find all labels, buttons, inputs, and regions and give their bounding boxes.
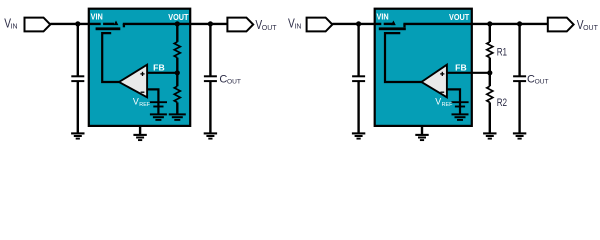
- wire U2 GND pin: [421, 126, 423, 135]
- wire FB node to lower divider resistor: [176, 73, 178, 86]
- svg-text:VOUT: VOUT: [168, 12, 189, 22]
- op-amp U2 error amplifier minus input marker: [440, 91, 444, 93]
- wire op-amp inverting input to VREF U1: [147, 89, 158, 114]
- transistor Q2 (PMOS pass) gate lead wire: [385, 33, 423, 82]
- capacitor CIN (input): [71, 76, 84, 81]
- IC U1 (fixed-output LDO regulator) body: [89, 9, 190, 126]
- transistor Q2 (PMOS pass) channel segment: [384, 23, 395, 25]
- ground (COUT, circuit 2): [513, 133, 526, 138]
- resistor R bottom (internal divider, U1): [174, 86, 180, 102]
- IC U2 (adjustable-output LDO regulator) body: [375, 9, 472, 126]
- transistor Q1 (PMOS pass) drain stub: [123, 24, 125, 27]
- wire COUT bottom (circuit 2): [518, 81, 520, 132]
- svg-text:VIN: VIN: [91, 12, 103, 22]
- wire CIN top (circuit 2): [357, 24, 359, 76]
- voltage reference VREF U2 long plate: [451, 101, 468, 103]
- svg-text:OUT: OUT: [535, 79, 549, 86]
- wire pass transistor drain to VOUT port (circuit 2): [403, 23, 547, 25]
- voltage reference VREF U2 short plate: [455, 106, 465, 108]
- wire VIN port to pass transistor source (circuit 2): [332, 23, 381, 25]
- capacitor CIN (input, circuit 2): [352, 76, 365, 81]
- wire op-amp inverting input to VREF U2: [447, 89, 460, 114]
- wire COUT bottom: [209, 81, 211, 132]
- junction node VOUT / R1 (circuit 2): [487, 21, 492, 26]
- junction node VIN / CIN (circuit 2): [356, 21, 361, 26]
- wire CIN bottom (circuit 2): [357, 81, 359, 132]
- svg-text:REF: REF: [139, 102, 150, 108]
- wire VOUT to R1: [489, 24, 491, 42]
- voltage reference VREF U1 short plate: [153, 106, 163, 108]
- wire R2 to ground: [489, 102, 491, 132]
- ground (R2): [483, 133, 496, 138]
- junction node VOUT / internal divider: [175, 21, 180, 26]
- svg-text:R2: R2: [497, 97, 507, 109]
- wire divider to FB node: [176, 58, 178, 73]
- node FB (U1): [175, 70, 180, 75]
- wire divider to ground: [176, 102, 178, 114]
- svg-text:IN: IN: [11, 24, 18, 31]
- wire R1 to FB node: [489, 58, 491, 73]
- port VIN input connector (circuit 2): [307, 18, 333, 32]
- ground (CIN): [71, 133, 84, 138]
- svg-text:VIN: VIN: [377, 12, 389, 22]
- resistor R top (internal divider, U1): [174, 42, 180, 58]
- wire COUT top: [209, 24, 211, 76]
- capacitor COUT (output, circuit 2): [513, 76, 526, 81]
- wire error amp + input through FB pin to divider: [447, 72, 490, 74]
- resistor R2: [487, 86, 493, 102]
- capacitor COUT (output): [204, 76, 217, 81]
- resistor R1: [487, 42, 493, 58]
- svg-text:R1: R1: [497, 47, 507, 59]
- op-amp U2 error amplifier plus input marker: [440, 72, 444, 76]
- op-amp U1 error amplifier minus input marker: [141, 91, 145, 93]
- transistor Q1 (PMOS pass) gate lead wire: [102, 33, 120, 82]
- ground (VREF U2 return): [452, 114, 469, 120]
- svg-text:V: V: [133, 97, 139, 107]
- transistor Q1 (PMOS pass) channel segment: [103, 23, 114, 25]
- wire error amp + input to FB node: [147, 72, 177, 74]
- svg-text:IN: IN: [294, 24, 301, 31]
- port VIN input connector: [25, 18, 51, 32]
- svg-text:FB: FB: [455, 62, 467, 72]
- svg-text:REF: REF: [442, 102, 453, 108]
- ground (U2 GND pin): [415, 135, 428, 140]
- ground (CIN, circuit 2): [352, 133, 365, 138]
- transistor Q1 (PMOS pass) gate bar: [96, 27, 121, 30]
- junction node VOUT / COUT (circuit 2): [517, 21, 522, 26]
- node FB (external divider): [487, 70, 492, 75]
- junction node VOUT / COUT: [208, 21, 213, 26]
- wire U1 GND pin: [139, 126, 141, 135]
- svg-text:V: V: [435, 97, 441, 107]
- svg-text:OUT: OUT: [227, 79, 241, 86]
- svg-text:FB: FB: [153, 62, 165, 72]
- wire COUT top (circuit 2): [518, 24, 520, 76]
- port VOUT output connector: [227, 18, 253, 32]
- ground (COUT): [204, 133, 217, 138]
- wire VIN port to pass transistor source: [50, 23, 100, 25]
- wire FB node to R2: [489, 73, 491, 86]
- svg-text:VOUT: VOUT: [449, 12, 470, 22]
- transistor Q2 (PMOS pass) drain stub: [403, 24, 405, 27]
- junction node VIN / CIN: [75, 21, 80, 26]
- ground (U1 GND pin): [133, 135, 146, 140]
- wire pass transistor drain to VOUT port: [123, 23, 228, 25]
- wire CIN top: [77, 24, 79, 76]
- transistor Q2 (PMOS pass) body arrow: [391, 21, 396, 26]
- op-amp U1 error amplifier plus input marker: [140, 72, 144, 76]
- wire VOUT to internal divider: [176, 24, 178, 42]
- wire CIN bottom: [77, 81, 79, 132]
- transistor Q1 (PMOS pass) body arrow: [114, 21, 119, 26]
- svg-text:OUT: OUT: [583, 25, 599, 32]
- op-amp U1 error amplifier: [119, 65, 147, 98]
- port VOUT output connector (circuit 2): [548, 18, 574, 32]
- ground (internal divider, U1): [169, 114, 186, 120]
- transistor Q2 (PMOS pass) gate bar: [379, 27, 406, 30]
- ground (VREF U1 return): [150, 114, 167, 120]
- op-amp U2 error amplifier: [421, 65, 447, 98]
- svg-text:OUT: OUT: [262, 25, 278, 32]
- voltage reference VREF U1 long plate: [150, 101, 167, 103]
